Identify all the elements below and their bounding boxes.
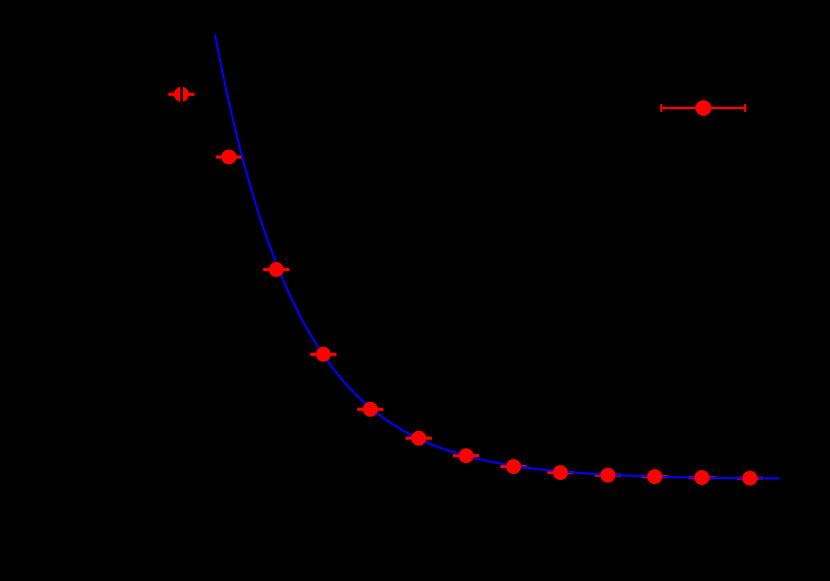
data point 12 marker: [694, 470, 709, 485]
data point 13 marker: [742, 471, 757, 486]
error bar point 8: [500, 465, 526, 468]
data point 9 marker: [553, 465, 568, 480]
black gap through point 1 marker: [180, 85, 183, 105]
error bar point 4: [310, 353, 336, 356]
data point 1 marker: [174, 87, 189, 102]
error bar point 12: [689, 476, 715, 479]
legend entry error bar: [661, 107, 745, 109]
data point 8 marker: [506, 459, 521, 474]
data point 5 marker: [363, 402, 378, 417]
error bar point 10: [595, 474, 621, 477]
error bar point 13: [737, 477, 763, 480]
legend marker: [696, 100, 712, 116]
data point 2 marker: [221, 150, 236, 165]
legend left cap: [660, 104, 662, 112]
fit curve (blue exponential): [215, 35, 780, 479]
data point 10 marker: [600, 468, 615, 483]
data point 6 marker: [411, 431, 426, 446]
error bar point 5: [357, 408, 383, 411]
data point 3 marker: [269, 262, 284, 277]
legend right cap: [744, 104, 746, 112]
error bar point 3: [263, 268, 289, 271]
error bar point 1: [168, 93, 194, 96]
data point 4 marker: [316, 347, 331, 362]
error bar point 9: [547, 471, 573, 474]
error bar point 2: [216, 155, 242, 158]
data point 11 marker: [647, 469, 662, 484]
error bar point 7: [453, 454, 479, 457]
data point 7 marker: [459, 448, 474, 463]
error bar point 11: [642, 475, 668, 478]
error bar point 6: [406, 437, 432, 440]
